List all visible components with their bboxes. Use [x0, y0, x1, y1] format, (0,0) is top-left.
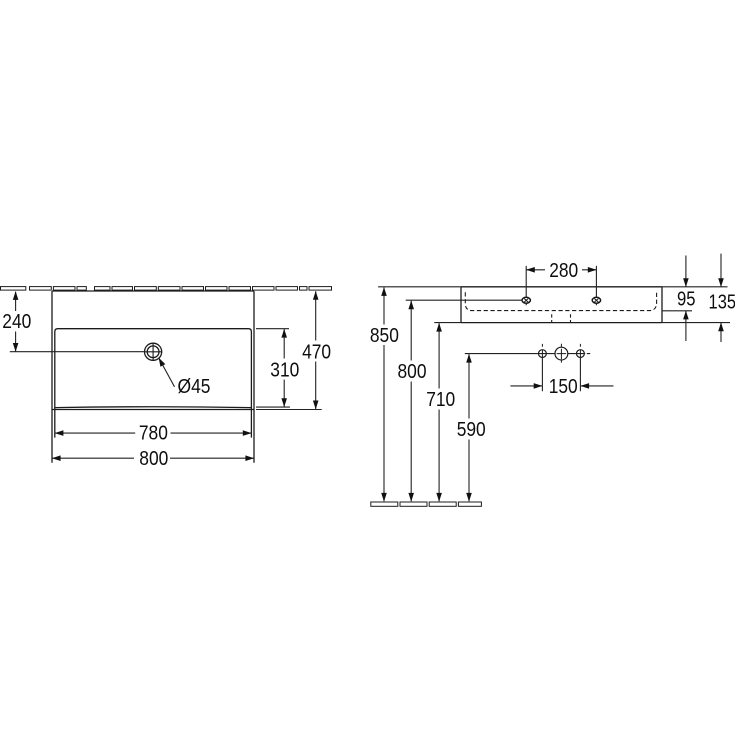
dimension 135: [720, 254, 722, 342]
floor hatch: [371, 502, 482, 506]
hidden inner bowl dashed line: [465, 292, 656, 310]
wall hatch band: [1, 287, 332, 291]
washbasin inner bowl outline: [55, 329, 252, 438]
tap hole crosshair: [144, 343, 162, 361]
dimension 800: [52, 457, 254, 459]
svg-text:Ø45: Ø45: [178, 376, 211, 398]
dimension 310 extension lines: [256, 329, 290, 407]
leader line for tap hole diameter: [159, 358, 175, 387]
extension line 710 level: [434, 322, 461, 324]
dimension 590: [468, 354, 470, 501]
centerline from 240 dim to tap hole: [10, 351, 145, 353]
dimension 240: [15, 292, 17, 352]
dimension 280 extension lines: [526, 266, 596, 305]
top edge extension to the right: [662, 286, 728, 288]
dimension 310: [283, 329, 285, 407]
svg-text:590: 590: [457, 419, 486, 441]
fixing hole right: [577, 350, 585, 358]
svg-text:310: 310: [270, 359, 299, 381]
svg-text:240: 240: [2, 311, 31, 333]
svg-text:780: 780: [139, 422, 168, 444]
extension line 800 level: [406, 299, 523, 301]
tap hole circles: [145, 343, 162, 360]
svg-text:800: 800: [139, 448, 168, 470]
dimension 850: [383, 288, 385, 502]
dimension 710: [438, 323, 440, 501]
fixing hole left: [539, 350, 547, 358]
svg-text:95: 95: [677, 289, 696, 311]
svg-text:470: 470: [302, 341, 331, 363]
dimension 800 (height): [410, 301, 412, 502]
svg-text:850: 850: [370, 325, 399, 347]
dimension 470 extension line (bottom): [256, 409, 322, 411]
bottom edge extension to the right: [662, 322, 730, 324]
svg-text:710: 710: [426, 389, 455, 411]
washbasin outer outline: [52, 291, 254, 463]
dimension 470: [315, 291, 317, 409]
svg-text:150: 150: [549, 376, 578, 398]
svg-text:800: 800: [398, 361, 427, 383]
dimension 95: [685, 256, 687, 342]
dimension 150 extension lines: [542, 357, 580, 391]
extension line 850 level: [378, 286, 461, 288]
tap hole ellipse right: [592, 297, 600, 303]
hidden drain dashes: [552, 314, 571, 322]
leader arrowhead: [159, 358, 166, 367]
dimension 780: [55, 432, 252, 434]
dimension 280: [526, 269, 596, 271]
svg-text:280: 280: [549, 260, 578, 282]
95 level extension line: [662, 310, 692, 312]
svg-text:135: 135: [709, 292, 735, 314]
dimension 150: [510, 385, 613, 387]
tap hole ellipse left: [522, 297, 530, 303]
fixing hole center: [555, 347, 568, 360]
basin profile outline: [461, 287, 662, 323]
extension line / centerline 590 level through fixing holes: [465, 353, 590, 355]
